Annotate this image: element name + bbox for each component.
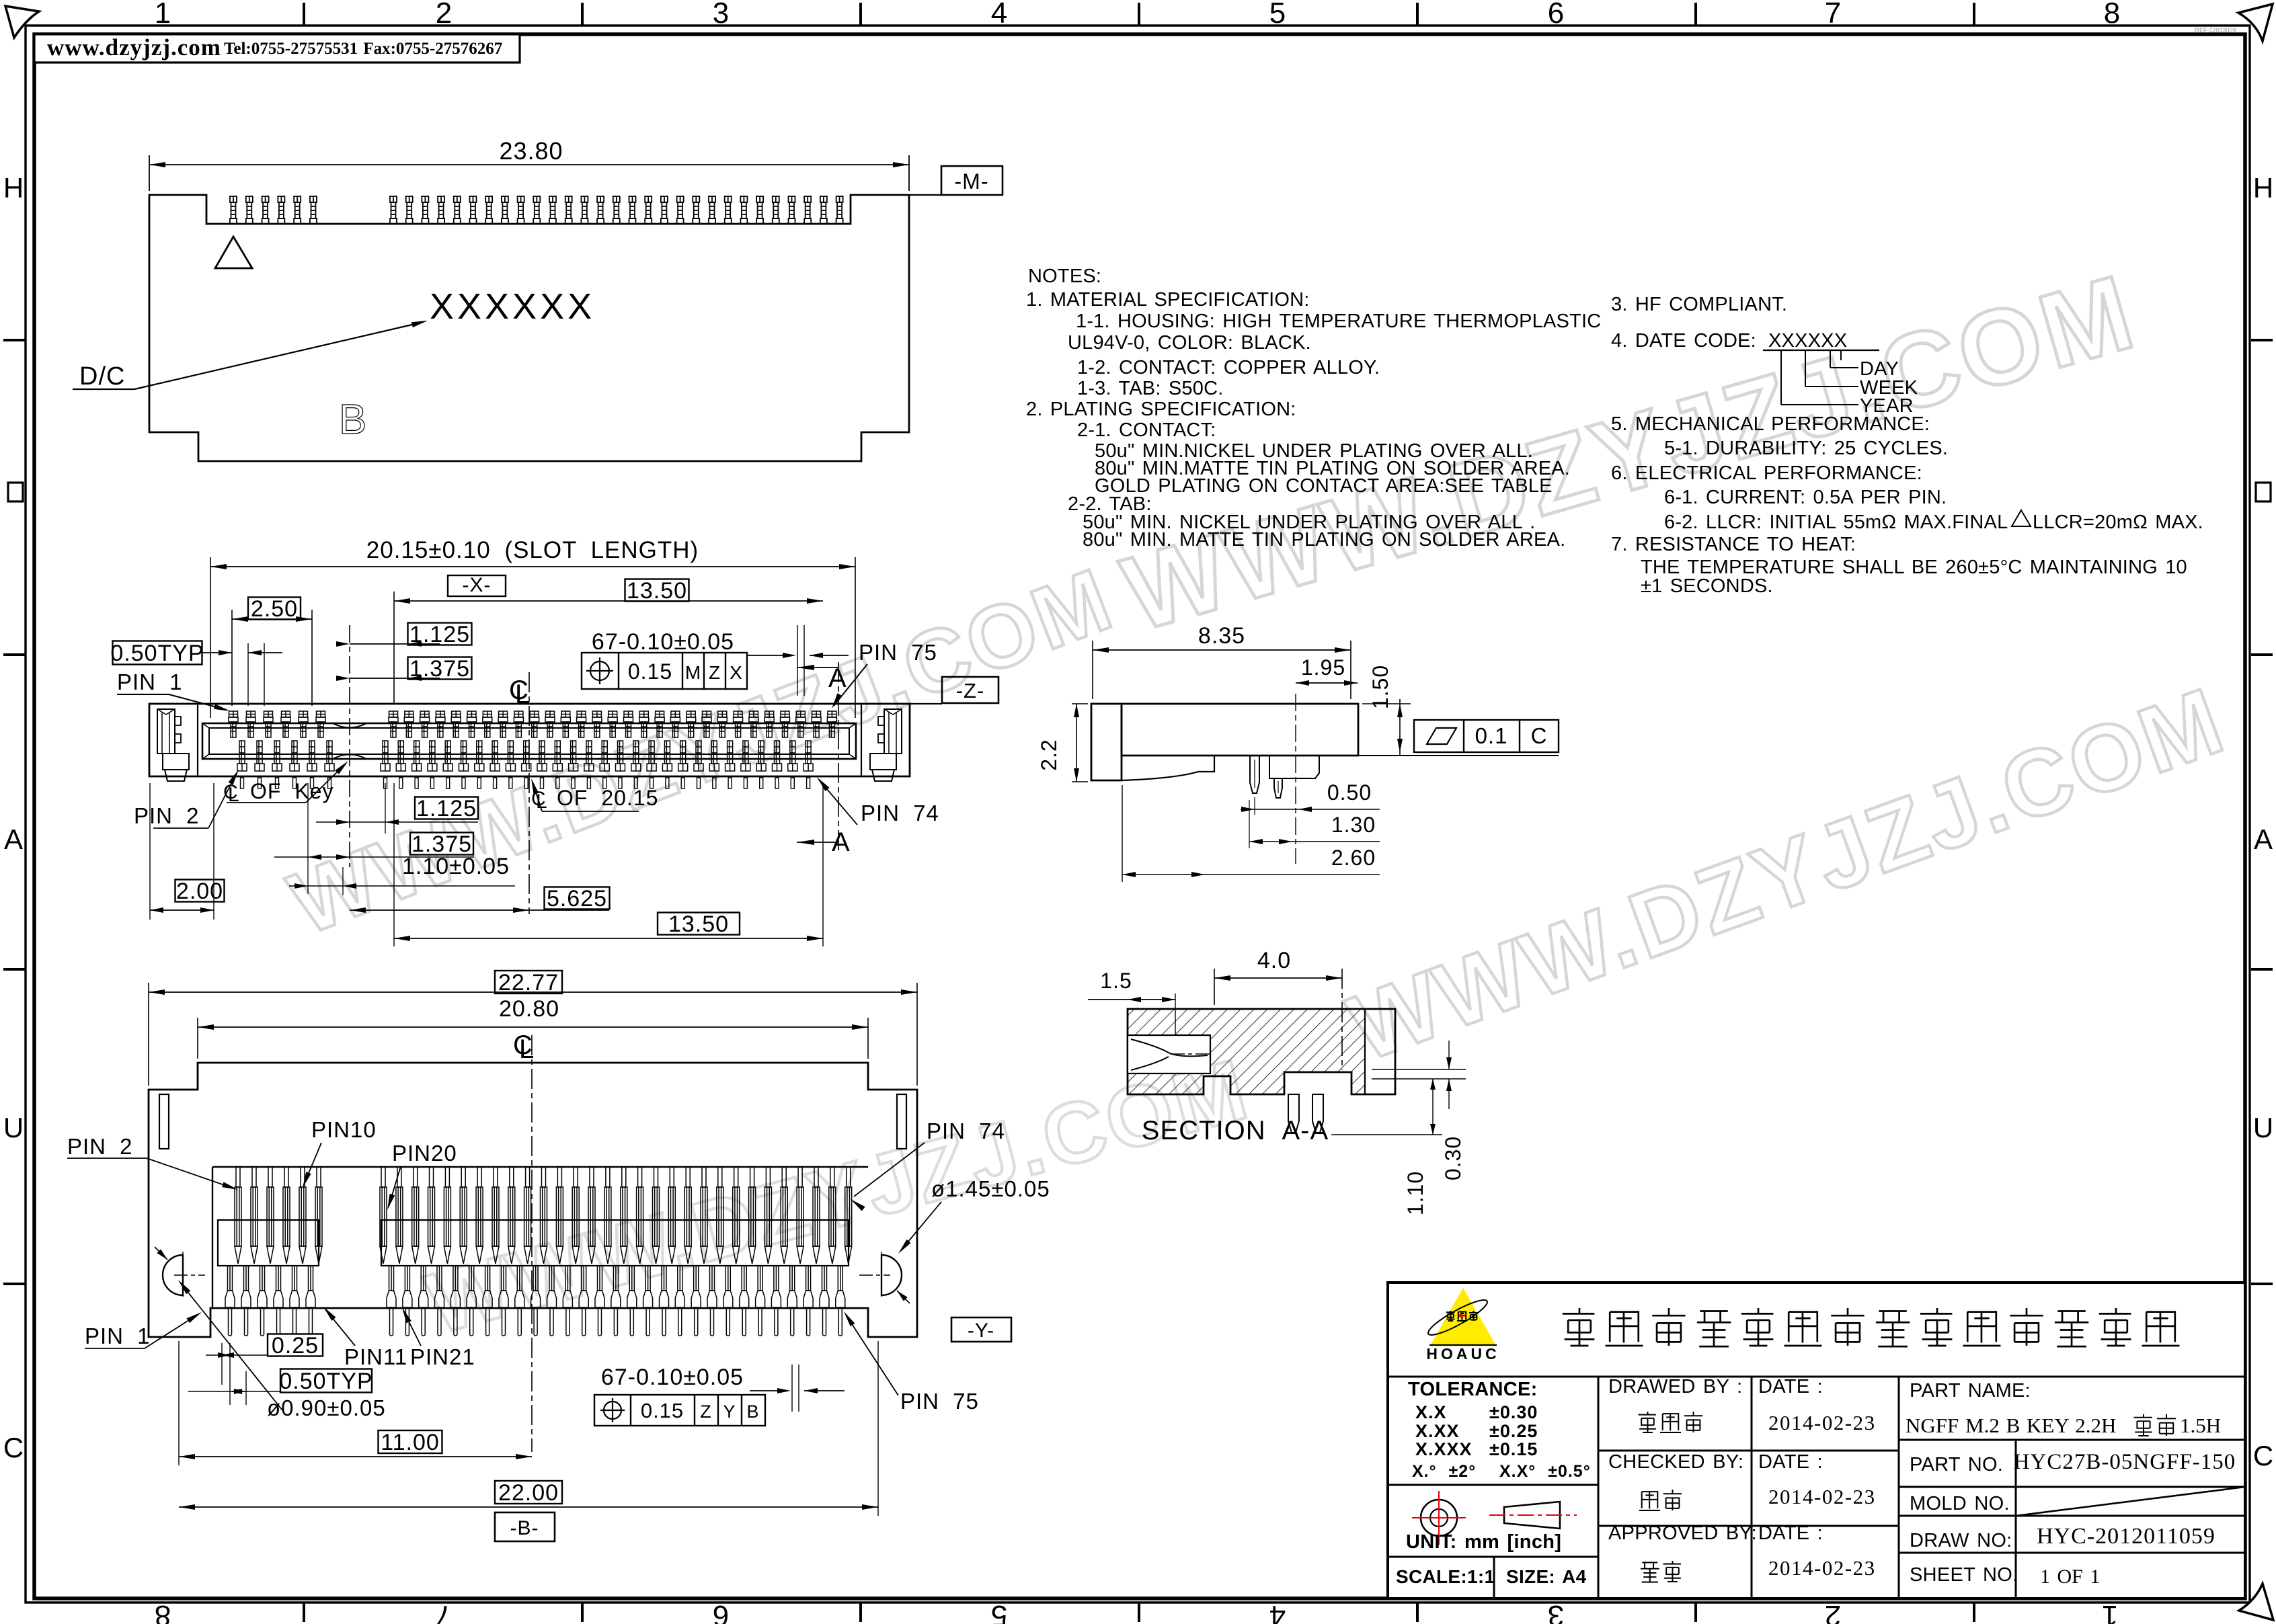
svg-text:U: U (3, 1112, 24, 1143)
side view solder tab centerline (1295, 694, 1296, 864)
svg-text:XXXXXX: XXXXXX (1768, 330, 1847, 352)
company logo base line (1429, 1344, 1497, 1346)
svg-text:6: 6 (713, 1599, 729, 1624)
svg-text:PART NO.: PART NO. (1910, 1454, 2003, 1475)
svg-text:8.35: 8.35 (1198, 623, 1245, 649)
mold no diagonal (2016, 1487, 2245, 1516)
bottom view lower pin row right group (387, 1266, 845, 1336)
svg-text:5-1. DURABILITY: 25 CYCLES.: 5-1. DURABILITY: 25 CYCLES. (1664, 438, 1948, 459)
bottom view left mid block (218, 1220, 319, 1266)
svg-text:PIN 75: PIN 75 (900, 1389, 979, 1414)
svg-text:X.° ±2°: X.° ±2° (1412, 1462, 1476, 1481)
svg-text:2. PLATING SPECIFICATION:: 2. PLATING SPECIFICATION: (1026, 399, 1296, 420)
bottom view dim 0.25 (268, 1334, 323, 1356)
svg-text:D/C: D/C (79, 362, 125, 391)
svg-text:8: 8 (2104, 0, 2120, 30)
corner arrow top-left (5, 6, 39, 38)
svg-text:4.0: 4.0 (1257, 948, 1291, 973)
section A-A solder legs (1288, 1094, 1299, 1133)
svg-text:SHEET NO.: SHEET NO. (1910, 1564, 2018, 1586)
side view solder legs (1250, 756, 1259, 793)
svg-text:±0.25: ±0.25 (1489, 1421, 1538, 1441)
top view datum -M- box (909, 194, 941, 196)
svg-text:11.00: 11.00 (381, 1430, 440, 1455)
header box company url (34, 34, 520, 63)
front view key bulge (333, 723, 366, 728)
svg-text:2.00: 2.00 (176, 879, 223, 904)
bottom view front edge line (212, 1166, 868, 1168)
svg-text:1.5H: 1.5H (2180, 1414, 2221, 1437)
front view top contact row right group (389, 711, 836, 737)
svg-text:0.50: 0.50 (1327, 780, 1372, 805)
svg-text:22.00: 22.00 (498, 1480, 559, 1506)
svg-text:B: B (339, 397, 366, 443)
svg-text:3. HF COMPLIANT.: 3. HF COMPLIANT. (1611, 294, 1787, 315)
svg-text:2.60: 2.60 (1331, 846, 1376, 870)
svg-text:1.50: 1.50 (1368, 665, 1392, 709)
svg-text:C: C (2253, 1440, 2273, 1471)
svg-text:DATE :: DATE : (1758, 1376, 1823, 1397)
svg-text:2-1. CONTACT:: 2-1. CONTACT: (1077, 419, 1216, 441)
svg-text:13.50: 13.50 (668, 911, 729, 937)
projection symbol target circle (1421, 1500, 1457, 1536)
bottom view upper pin row left group (235, 1167, 322, 1264)
svg-text:7: 7 (436, 1599, 452, 1624)
svg-text:PIN 1: PIN 1 (117, 669, 183, 694)
svg-text:-B-: -B- (510, 1517, 539, 1539)
svg-text:PART NAME:: PART NAME: (1910, 1380, 2031, 1402)
svg-text:APPROVED BY:: APPROVED BY: (1608, 1522, 1757, 1544)
bottom view dim 22.00 (495, 1481, 562, 1504)
company name chinese (1563, 1308, 1595, 1346)
svg-text:ø0.90±0.05: ø0.90±0.05 (267, 1395, 386, 1420)
svg-text:NOTES:: NOTES: (1028, 266, 1101, 287)
svg-text:2014-02-23: 2014-02-23 (1768, 1411, 1876, 1434)
svg-text:1: 1 (2102, 1599, 2118, 1624)
svg-text:5. MECHANICAL PERFORMANCE:: 5. MECHANICAL PERFORMANCE: (1611, 413, 1930, 435)
front view dim 13.50 upper (625, 579, 689, 602)
svg-text:1.30: 1.30 (1331, 813, 1376, 837)
svg-text:www.dzyjzj.com: www.dzyjzj.com (47, 34, 221, 60)
front view dim 13.50 lower (658, 913, 740, 935)
svg-text:7: 7 (1825, 0, 1841, 30)
svg-text:6-2. LLCR: INITIAL 55mΩ MA: 6-2. LLCR: INITIAL 55mΩ MAX.FINAL (1664, 512, 2008, 533)
bottom view upper pin row right group (380, 1167, 852, 1264)
svg-text:LLCR=20mΩ MAX.: LLCR=20mΩ MAX. (2033, 512, 2203, 533)
front view body outline (149, 704, 910, 776)
bottom view position tolerance frame (594, 1395, 765, 1426)
svg-text:X.XX: X.XX (1415, 1421, 1460, 1441)
svg-text:3: 3 (713, 0, 729, 30)
svg-text:DATE :: DATE : (1758, 1451, 1823, 1473)
zone ticks top edge (303, 3, 305, 25)
svg-text:2014-02-23: 2014-02-23 (1768, 1556, 1876, 1580)
svg-text:SIZE: A4: SIZE: A4 (1506, 1566, 1587, 1587)
bottom view right ear slot (897, 1094, 906, 1149)
svg-text:-Z-: -Z- (956, 679, 985, 702)
svg-text:0.25: 0.25 (272, 1333, 319, 1358)
front view dim 1.125 lower (415, 797, 478, 819)
bottom view dim 22.77 (495, 971, 562, 993)
front view dim 2.00 (175, 880, 225, 902)
svg-text:SCALE:1:1: SCALE:1:1 (1396, 1566, 1495, 1587)
svg-text:OF 20.15: OF 20.15 (557, 786, 658, 810)
svg-text:20.80: 20.80 (499, 996, 559, 1022)
svg-text:PIN 2: PIN 2 (134, 803, 200, 828)
svg-text:HYC27B-05NGFF-150: HYC27B-05NGFF-150 (2014, 1450, 2236, 1474)
title block middle rows (1598, 1450, 1899, 1452)
side view flatness frame 0.1 C (1358, 755, 1559, 756)
front view dim 0.50TYP (113, 641, 202, 665)
bottom view lower pin row left group (225, 1266, 315, 1336)
bottom view centerline (531, 1035, 533, 1452)
front view key centerline (349, 625, 350, 867)
bottom view body outline (149, 1063, 917, 1337)
svg-text:U: U (2253, 1112, 2273, 1143)
svg-text:UNIT: mm [inch]: UNIT: mm [inch] (1406, 1531, 1561, 1553)
svg-text:67-0.10±0.05: 67-0.10±0.05 (601, 1365, 744, 1390)
svg-text:±0.30: ±0.30 (1489, 1402, 1538, 1422)
section A-A contact cavity (1128, 1035, 1210, 1073)
svg-text:4: 4 (1269, 1599, 1286, 1624)
svg-text:Z: Z (700, 1402, 712, 1422)
svg-text:X.XXX: X.XXX (1415, 1439, 1473, 1459)
svg-text:A: A (4, 823, 23, 855)
date code callout bracket (1830, 350, 1831, 368)
svg-text:13.50: 13.50 (627, 578, 687, 604)
svg-text:DRAWED BY :: DRAWED BY : (1608, 1376, 1742, 1397)
svg-text:SECTION A-A: SECTION A-A (1142, 1116, 1329, 1145)
projection symbol cone (1504, 1502, 1560, 1529)
svg-text:PIN 75: PIN 75 (859, 640, 937, 665)
svg-text:1-3. TAB: S50C.: 1-3. TAB: S50C. (1077, 378, 1223, 399)
svg-text:GOLD PLATING ON CONTACT AR: GOLD PLATING ON CONTACT AREA:SEE TABLE (1095, 475, 1553, 497)
svg-text:Tel:0755-27575531 Fax:0755-27: Tel:0755-27575531 Fax:0755-27576267 (224, 40, 502, 58)
svg-text:Y: Y (723, 1402, 736, 1422)
front view solder tails below body (241, 778, 810, 788)
svg-text:PIN10: PIN10 (311, 1117, 377, 1142)
front view dim 5.625 (545, 887, 610, 909)
svg-text:L: L (519, 1034, 534, 1064)
svg-text:2.50: 2.50 (251, 596, 298, 622)
top view pin row left group (230, 196, 317, 224)
top view body outline (149, 195, 909, 461)
svg-text:TOLERANCE:: TOLERANCE: (1408, 1379, 1538, 1400)
svg-text:1-1. HOUSING: HIGH TEMPERAT: 1-1. HOUSING: HIGH TEMPERATURE THERMOPLA… (1076, 311, 1601, 332)
front view right ear foot (870, 754, 896, 770)
svg-text:-Y-: -Y- (968, 1319, 994, 1342)
svg-text:DATE :: DATE : (1758, 1522, 1823, 1544)
title block company row separator (1388, 1376, 2245, 1378)
svg-text:2: 2 (436, 0, 452, 30)
svg-text:8: 8 (155, 1599, 171, 1624)
svg-text:C: C (1531, 723, 1548, 748)
svg-text:L: L (515, 680, 530, 709)
svg-text:X.X: X.X (1415, 1402, 1447, 1422)
svg-text:6: 6 (1548, 0, 1564, 30)
svg-text:5: 5 (1269, 0, 1286, 30)
svg-text:1: 1 (155, 0, 171, 30)
front view top contact row left group (229, 711, 325, 737)
title block right column rows (1899, 1439, 2245, 1441)
bottom view left ear slot (159, 1094, 169, 1149)
svg-text:OF Key: OF Key (250, 779, 333, 803)
svg-text:±1 SECONDS.: ±1 SECONDS. (1641, 575, 1773, 597)
svg-text:PIN 74: PIN 74 (861, 801, 939, 825)
side view support block (1269, 756, 1319, 778)
svg-text:0.50TYP: 0.50TYP (110, 641, 204, 666)
svg-text:5.625: 5.625 (547, 886, 607, 911)
svg-text:20.15±0.10 (SLOT LENGTH): 20.15±0.10 (SLOT LENGTH) (366, 537, 699, 563)
svg-text:X: X (730, 662, 743, 683)
svg-text:H: H (3, 172, 24, 204)
title block left column rows (1388, 1484, 1598, 1486)
svg-text:NGFF M.2 B KEY 2.2H: NGFF M.2 B KEY 2.2H (1906, 1414, 2116, 1437)
svg-text:23.80: 23.80 (499, 137, 563, 165)
svg-text:0.1: 0.1 (1475, 723, 1508, 748)
svg-text:4: 4 (991, 0, 1007, 30)
svg-text:6-1. CURRENT: 0.5A PER PIN: 6-1. CURRENT: 0.5A PER PIN. (1664, 487, 1947, 508)
svg-text:0.30: 0.30 (1441, 1136, 1465, 1180)
svg-text:67-0.10±0.05: 67-0.10±0.05 (592, 629, 734, 655)
front view bottom contact row left group (237, 741, 334, 771)
svg-text:±0.15: ±0.15 (1489, 1439, 1538, 1459)
svg-text:UL94V-0, COLOR: BLACK.: UL94V-0, COLOR: BLACK. (1068, 332, 1311, 354)
front view datum -Z- box (942, 677, 998, 703)
title block outer frame (1388, 1283, 2245, 1598)
svg-text:MOLD NO.: MOLD NO. (1910, 1493, 2010, 1514)
svg-text:1.10±0.05: 1.10±0.05 (402, 854, 510, 879)
front view position tolerance frame upper (582, 653, 747, 689)
svg-text:X.X° ±0.5°: X.X° ±0.5° (1499, 1462, 1591, 1481)
svg-text:1.10: 1.10 (1403, 1171, 1427, 1215)
svg-text:H: H (2253, 172, 2273, 204)
bottom view datum -B- box (495, 1512, 555, 1541)
svg-text:PIN20: PIN20 (392, 1141, 457, 1166)
svg-text:-X-: -X- (463, 574, 492, 596)
side view body outline (1091, 704, 1122, 780)
svg-text:-M-: -M- (955, 169, 989, 194)
svg-text:PIN11: PIN11 (344, 1344, 407, 1369)
svg-text:1-2. CONTACT: COPPER ALLOY.: 1-2. CONTACT: COPPER ALLOY. (1077, 357, 1380, 378)
svg-text:C: C (3, 1432, 24, 1463)
top view polarity triangle mark (215, 237, 252, 268)
svg-text:1.5: 1.5 (1100, 969, 1132, 993)
svg-text:XXXXXX: XXXXXX (430, 286, 595, 327)
svg-text:PIN 1: PIN 1 (85, 1324, 151, 1348)
svg-text:4. DATE CODE:: 4. DATE CODE: (1611, 330, 1756, 352)
front view dim 1.375 lower (410, 833, 473, 855)
svg-text:B: B (746, 1402, 759, 1422)
top view pin row right group (390, 196, 843, 224)
svg-text:1 OF 1: 1 OF 1 (2040, 1566, 2100, 1588)
front view centerline CL (528, 672, 530, 914)
svg-text:ø1.45±0.05: ø1.45±0.05 (931, 1176, 1050, 1201)
front view left ear foot (163, 754, 189, 770)
svg-text:2.2: 2.2 (1037, 739, 1061, 770)
svg-text:80u" MIN. MATTE TIN PLATIN: 80u" MIN. MATTE TIN PLATING ON SOLDER AR… (1083, 529, 1565, 551)
front view dim 2.50 (248, 598, 301, 620)
company logo chinese chars (1446, 1311, 1455, 1321)
front view dim 1.125 upper (408, 623, 472, 645)
svg-text:2: 2 (1825, 1599, 1841, 1624)
front view bottom contact row right group (381, 741, 813, 771)
svg-text:1.125: 1.125 (416, 796, 477, 821)
zone ticks right edge (2251, 339, 2273, 341)
company logo triangle (1431, 1288, 1495, 1344)
svg-text:A: A (2254, 823, 2273, 855)
side view bottom pocket profile (1122, 756, 1214, 780)
bottom view left hole half-circle (163, 1255, 183, 1295)
svg-text:0.50TYP: 0.50TYP (279, 1369, 372, 1394)
bottom view right hole half-circle (881, 1255, 902, 1295)
bottom view right mid block (381, 1220, 849, 1266)
front view datum -X- box (448, 575, 506, 596)
front view slot opening (202, 723, 856, 759)
bottom view datum -Y- box (951, 1317, 1011, 1342)
svg-text:REF-12033009: REF-12033009 (2195, 27, 2236, 34)
svg-text:HOAUC: HOAUC (1426, 1345, 1499, 1363)
svg-text:PIN 74: PIN 74 (927, 1119, 1005, 1143)
svg-text:CHECKED BY:: CHECKED BY: (1608, 1451, 1743, 1473)
svg-text:PIN21: PIN21 (410, 1344, 475, 1369)
front view left latch ear (197, 704, 198, 776)
svg-text:2014-02-23: 2014-02-23 (1768, 1485, 1876, 1508)
svg-text:DRAW NO:: DRAW NO: (1910, 1530, 2012, 1551)
svg-text:1.95: 1.95 (1301, 655, 1345, 680)
svg-text:HYC-2012011059: HYC-2012011059 (2037, 1524, 2215, 1549)
svg-text:6. ELECTRICAL PERFORMANCE:: 6. ELECTRICAL PERFORMANCE: (1611, 462, 1922, 484)
svg-text:PIN 2: PIN 2 (67, 1134, 133, 1159)
bottom view dim 0.50TYP (280, 1369, 372, 1393)
corner arrow top-right (2238, 4, 2273, 41)
svg-text:0.15: 0.15 (628, 659, 672, 684)
bottom view dim 11.00 (379, 1430, 442, 1453)
title block column lines (1598, 1377, 1600, 1598)
svg-text:3: 3 (1548, 1599, 1564, 1624)
front view right latch ear (861, 704, 862, 776)
zone ticks bottom edge (303, 1602, 305, 1622)
svg-text:7. RESISTANCE TO HEAT:: 7. RESISTANCE TO HEAT: (1611, 534, 1856, 555)
front view dim 1.375 upper (408, 657, 472, 680)
corner arrow bottom-right (2239, 1584, 2273, 1620)
svg-text:Z: Z (709, 662, 721, 683)
svg-text:1. MATERIAL SPECIFICATION:: 1. MATERIAL SPECIFICATION: (1026, 289, 1310, 311)
svg-text:5: 5 (991, 1599, 1007, 1624)
zone ticks left edge (3, 339, 25, 341)
svg-text:0.15: 0.15 (641, 1399, 684, 1422)
svg-text:M: M (685, 662, 701, 683)
